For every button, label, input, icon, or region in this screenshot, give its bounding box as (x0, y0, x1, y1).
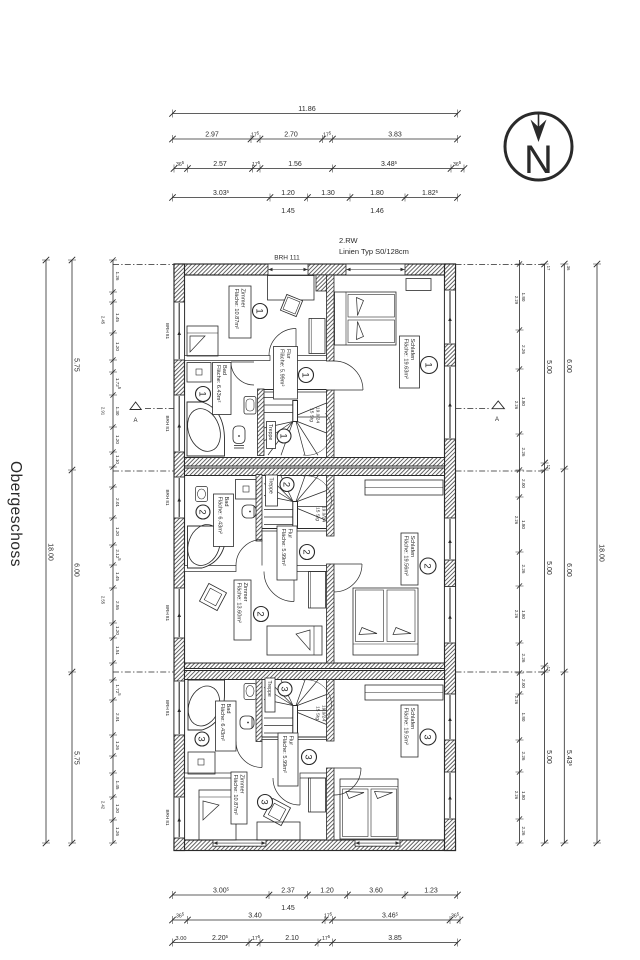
wardrobe unit1 Zimmer (309, 319, 325, 354)
svg-text:2: 2 (197, 509, 208, 514)
wardrobe unit3 Schlafen (365, 685, 443, 700)
svg-text:3: 3 (422, 734, 433, 739)
svg-text:3.00: 3.00 (176, 936, 187, 942)
svg-text:2: 2 (255, 611, 266, 616)
dimension line (45, 260, 47, 843)
chair unit3 Zimmer (263, 798, 290, 825)
svg-text:Treppe: Treppe (268, 478, 274, 494)
svg-text:2.45: 2.45 (101, 316, 106, 325)
door unit1 Schlafen (334, 361, 363, 390)
svg-text:18.00: 18.00 (47, 543, 54, 561)
unit number circle u1 zimmer (253, 304, 268, 319)
stair newel (293, 502, 298, 528)
window right 518 (445, 518, 456, 560)
svg-text:1.80: 1.80 (521, 610, 526, 619)
door unit2 Zimmer (264, 572, 294, 602)
sink unit3 (244, 684, 256, 700)
dimension line (173, 919, 461, 921)
outer wall left (174, 264, 185, 851)
svg-text:Fläche: 5.99m²: Fläche: 5.99m² (280, 529, 286, 566)
party wall 1 second leaf (185, 468, 445, 476)
svg-text:3.60: 3.60 (369, 888, 383, 895)
stair newel (293, 706, 298, 737)
svg-text:1.20: 1.20 (115, 527, 120, 536)
svg-text:BRH 81: BRH 81 (165, 605, 170, 622)
svg-text:Schlafen: Schlafen (409, 339, 415, 361)
dimension line (544, 264, 546, 843)
svg-text:1.45: 1.45 (281, 208, 295, 215)
svg-text:1.51: 1.51 (115, 646, 120, 655)
room label Bad u2 (214, 494, 234, 547)
washing machine unit3 (188, 752, 215, 774)
svg-text:1.80: 1.80 (521, 520, 526, 529)
left detail dimension column (112, 260, 114, 843)
toilet unit3 (240, 716, 254, 729)
svg-text:3.83: 3.83 (388, 132, 402, 139)
window right 694 (445, 694, 456, 740)
svg-text:6.00: 6.00 (73, 563, 80, 577)
svg-text:1.23: 1.23 (424, 888, 438, 895)
svg-text:1.30: 1.30 (321, 190, 335, 197)
unit number circle u3 treppe (278, 682, 292, 696)
svg-text:Linien Typ S0/128cm: Linien Typ S0/128cm (339, 247, 409, 256)
svg-text:19.0/24: 19.0/24 (321, 705, 327, 721)
room label Schlafen u3 (401, 705, 418, 757)
double bed unit3 Schlafen (340, 779, 398, 839)
room label Flur u2 (277, 526, 297, 580)
washing machine unit2 (236, 480, 257, 500)
window left 681 (174, 681, 185, 735)
svg-text:1.20: 1.20 (115, 626, 120, 635)
door unit1 Bad (231, 362, 254, 385)
svg-text:2.26: 2.26 (521, 827, 526, 836)
sink unit1 (244, 397, 256, 415)
svg-text:2.26: 2.26 (514, 516, 519, 525)
party wall 2 main leaf (185, 671, 445, 680)
bathtub unit1 (187, 402, 225, 456)
svg-text:1.80: 1.80 (521, 713, 526, 722)
section line A right (456, 408, 490, 410)
bed unit2 Zimmer (267, 626, 322, 655)
svg-text:19.0/24: 19.0/24 (315, 407, 321, 423)
unit number circle u2 treppe (280, 478, 294, 492)
svg-text:2.29: 2.29 (514, 296, 519, 305)
svg-text:2.10: 2.10 (285, 935, 299, 942)
svg-text:Zimmer: Zimmer (242, 583, 248, 602)
svg-text:2.55: 2.55 (101, 596, 106, 605)
svg-text:Zimmer: Zimmer (238, 775, 244, 794)
svg-text:3: 3 (303, 754, 314, 759)
svg-text:2.26: 2.26 (521, 654, 526, 663)
svg-text:17: 17 (546, 465, 551, 470)
svg-text:2.26: 2.26 (514, 610, 519, 619)
room label Flur u3 (278, 733, 298, 786)
svg-text:BRH 81: BRH 81 (165, 809, 170, 826)
svg-text:2.00: 2.00 (521, 479, 526, 488)
dimension line (596, 264, 598, 843)
svg-text:Flur: Flur (287, 736, 293, 746)
unit number circle u3 bad (195, 732, 209, 746)
room label Zimmer u1 (229, 286, 251, 338)
dimension line (174, 168, 464, 170)
svg-text:Bad: Bad (223, 497, 229, 507)
window left 797 (174, 797, 185, 838)
svg-text:5.75: 5.75 (73, 358, 80, 372)
bad wall u3 (256, 680, 262, 742)
svg-text:Flur: Flur (285, 349, 291, 359)
svg-text:Schlafen: Schlafen (409, 708, 415, 730)
svg-text:1.45: 1.45 (281, 905, 295, 912)
svg-text:2.42: 2.42 (101, 801, 106, 810)
party wall 1 main leaf (185, 458, 445, 467)
schlafen wall u2 upper (327, 476, 335, 537)
svg-text:2.26: 2.26 (514, 791, 519, 800)
svg-text:3: 3 (196, 736, 207, 741)
unit1 Zimmer/Bad partition wall (185, 356, 271, 361)
svg-text:6.00: 6.00 (565, 359, 572, 373)
svg-text:Fläche: 6.43m²: Fläche: 6.43m² (219, 704, 225, 741)
svg-text:Fläche: 19.56m²: Fläche: 19.56m² (403, 536, 409, 577)
top overall dimension 11.86 (173, 113, 458, 115)
svg-text:BRH 81: BRH 81 (165, 489, 170, 506)
svg-text:Obergeschoss: Obergeschoss (7, 461, 24, 567)
window bottom 355 (355, 840, 400, 846)
washing machine unit1 (187, 363, 211, 383)
door unit3 Schlafen (334, 768, 361, 795)
svg-text:2.97: 2.97 (205, 132, 219, 139)
door unit3 Zimmer (273, 778, 300, 805)
svg-text:2.26: 2.26 (521, 448, 526, 457)
svg-text:Schlafen: Schlafen (409, 536, 415, 558)
schlafen wall u1 upper (327, 275, 335, 361)
room label Flur u1 (274, 347, 298, 400)
svg-text:1.45: 1.45 (115, 313, 120, 322)
svg-text:1.45: 1.45 (115, 572, 120, 581)
svg-text:Treppe: Treppe (266, 681, 272, 697)
schlafen wall u3 lower (327, 768, 335, 840)
unit number circle u2 bad (196, 505, 210, 519)
schlafen wall u1 lower (327, 390, 335, 458)
svg-text:1.20: 1.20 (115, 435, 120, 444)
svg-text:1.80: 1.80 (370, 190, 384, 197)
svg-text:1: 1 (278, 433, 289, 438)
right detail dimension column (519, 260, 521, 843)
svg-text:BRH 81: BRH 81 (165, 700, 170, 717)
svg-text:Bad: Bad (221, 365, 227, 375)
bathtub unit3 (188, 680, 225, 730)
section line A left (145, 408, 174, 410)
unit number circle u3 flur (302, 750, 317, 765)
svg-text:2.55: 2.55 (115, 601, 120, 610)
svg-text:Zimmer: Zimmer (239, 289, 245, 308)
outer wall top (174, 264, 456, 275)
room label Schlafen u1 (400, 336, 420, 388)
unit number circle u1 schlafen (421, 357, 438, 374)
svg-text:2.91: 2.91 (101, 407, 106, 416)
svg-text:1.26: 1.26 (115, 272, 120, 281)
svg-text:1.56: 1.56 (288, 161, 302, 168)
chair unit2 Zimmer (199, 583, 226, 610)
door unit2 Schlafen (334, 564, 362, 592)
unit3 stair bottom edge (262, 736, 327, 738)
svg-text:1.80: 1.80 (521, 791, 526, 800)
wardrobe unit2 Zimmer (309, 572, 326, 609)
svg-text:1.26: 1.26 (115, 827, 120, 836)
svg-text:5.00: 5.00 (545, 360, 552, 374)
svg-text:BRH 81: BRH 81 (165, 415, 170, 432)
svg-text:2.26: 2.26 (521, 345, 526, 354)
unit number circle u3 schlafen (420, 729, 436, 745)
stair walk line unit1 (303, 413, 332, 455)
bed unit1 Zimmer (187, 326, 218, 356)
window top 268 (268, 264, 308, 275)
room label Bad u1 (213, 363, 232, 415)
svg-text:1.10: 1.10 (115, 455, 120, 464)
sink unit2 (196, 487, 208, 502)
svg-text:6.00: 6.00 (565, 563, 572, 577)
stairs unit at y 679.5 (264, 732, 293, 734)
chair unit1 Zimmer (280, 294, 302, 316)
svg-text:Fläche: 6.43m²: Fläche: 6.43m² (217, 497, 223, 534)
svg-text:15 Stg: 15 Stg (315, 706, 321, 720)
svg-text:1: 1 (254, 308, 265, 313)
svg-text:2.26: 2.26 (521, 752, 526, 761)
svg-text:1.20: 1.20 (281, 190, 295, 197)
schlafen wall u3 upper (327, 680, 335, 742)
door unit2 Bad (236, 540, 262, 566)
unit number circle u1 bad (196, 387, 211, 402)
svg-text:N: N (524, 138, 553, 182)
dimension line (71, 260, 73, 843)
dimension line (173, 894, 458, 896)
door unit1 Zimmer (269, 329, 296, 356)
svg-text:2.00: 2.00 (521, 679, 526, 688)
svg-text:1: 1 (197, 391, 208, 396)
room label Zimmer u3 (231, 772, 247, 824)
outer wall bottom (174, 840, 456, 851)
svg-text:1.20: 1.20 (115, 342, 120, 351)
svg-text:BRH 111: BRH 111 (274, 255, 300, 262)
unit1 stair top edge (264, 389, 327, 391)
dimension line (173, 138, 458, 140)
svg-text:1.20: 1.20 (320, 888, 334, 895)
window right 772 (445, 772, 456, 819)
svg-text:2: 2 (281, 482, 292, 487)
svg-text:1.46: 1.46 (370, 208, 384, 215)
unit number circle u2 flur (300, 545, 315, 560)
svg-text:3: 3 (259, 799, 270, 804)
window left 302 (174, 302, 185, 360)
window right 366 (445, 366, 456, 439)
unit number circle u2 schlafen (420, 558, 436, 574)
dresser unit1 Schlafen (406, 279, 431, 291)
svg-text:2: 2 (301, 549, 312, 554)
svg-text:2.70: 2.70 (284, 132, 298, 139)
room label Treppe u1 (267, 422, 276, 449)
svg-text:Fläche: 19.63m²: Fläche: 19.63m² (403, 339, 409, 380)
toilet unit1 (233, 426, 245, 444)
storey dash-dot lines left (113, 264, 174, 266)
svg-text:Treppe: Treppe (267, 424, 273, 440)
svg-text:18.00: 18.00 (598, 544, 605, 562)
north compass (505, 113, 572, 180)
svg-text:2.01: 2.01 (115, 498, 120, 507)
window top 346 (346, 264, 405, 275)
svg-text:Fläche: 19.5m²: Fläche: 19.5m² (403, 708, 409, 745)
desk unit3 Zimmer (257, 822, 300, 840)
window right 586.5 (445, 587, 456, 644)
desk unit1 Zimmer (268, 276, 315, 301)
toilet unit2 (242, 505, 256, 518)
svg-text:1.20: 1.20 (115, 804, 120, 813)
svg-text:A: A (495, 417, 499, 423)
svg-text:2.26: 2.26 (521, 565, 526, 574)
svg-text:11.86: 11.86 (298, 104, 315, 113)
svg-text:15 Stg: 15 Stg (315, 507, 321, 521)
svg-text:Fläche: 6.43m²: Fläche: 6.43m² (215, 365, 221, 402)
svg-text:15 Stg: 15 Stg (309, 408, 315, 422)
svg-text:2.26: 2.26 (514, 696, 519, 705)
svg-text:5.00: 5.00 (545, 561, 552, 575)
wardrobe unit2 Schlafen (365, 480, 443, 495)
duct stub u1 (316, 275, 334, 291)
unit3 Bad/Zimmer partition wall (185, 773, 237, 778)
svg-text:3: 3 (279, 686, 290, 691)
bed unit3 Zimmer (199, 790, 236, 840)
svg-text:5.75: 5.75 (73, 751, 80, 765)
svg-text:5.00: 5.00 (545, 750, 552, 764)
unit2 stair bottom edge (262, 528, 327, 530)
room label Treppe u2 (266, 475, 278, 506)
svg-text:1.26: 1.26 (115, 741, 120, 750)
svg-text:1: 1 (423, 362, 434, 367)
svg-text:1.80: 1.80 (521, 397, 526, 406)
dimension line (173, 942, 458, 944)
unit number circle u1 treppe (277, 429, 291, 443)
svg-text:Fläche: 10.87m²: Fläche: 10.87m² (233, 289, 239, 330)
svg-text:Fläche: 5.99m²: Fläche: 5.99m² (281, 736, 287, 773)
unit number circle u1 flur (299, 368, 314, 383)
wardrobe unit3 Zimmer (309, 778, 326, 812)
svg-text:BRH 81: BRH 81 (165, 323, 170, 340)
stairs unit at y 475.5 (264, 524, 293, 526)
svg-text:1.30: 1.30 (115, 407, 120, 416)
room label Zimmer u2 (234, 580, 251, 640)
svg-text:2.37: 2.37 (281, 888, 295, 895)
unit number circle u3 zimmer (258, 795, 273, 810)
svg-text:1: 1 (300, 372, 311, 377)
svg-text:2.91: 2.91 (115, 713, 120, 722)
stairs unit1 (264, 397, 293, 399)
door unit3 Bad (236, 742, 262, 768)
stair newel unit1 (293, 401, 298, 422)
svg-text:2: 2 (422, 563, 433, 568)
room label Schlafen u2 (401, 533, 418, 585)
stair wall u1 (258, 389, 265, 456)
svg-text:3.40: 3.40 (248, 913, 262, 920)
double bed unit2 Schlafen (353, 588, 418, 655)
unit number circle u2 zimmer (254, 607, 269, 622)
window left 477 (174, 477, 185, 518)
svg-text:2.57: 2.57 (213, 161, 227, 168)
window left 588 (174, 588, 185, 638)
svg-text:Fläche: 5.99m²: Fläche: 5.99m² (279, 349, 285, 386)
window right 290 (445, 290, 456, 344)
outer wall right (445, 264, 456, 851)
svg-text:36: 36 (566, 266, 571, 271)
svg-text:3.85: 3.85 (388, 935, 402, 942)
unit2 Bad/Zimmer partition wall (185, 566, 237, 572)
room label Treppe u3 (265, 678, 275, 712)
double bed unit1 Schlafen (335, 292, 397, 345)
svg-text:2.26: 2.26 (514, 401, 519, 410)
svg-text:17: 17 (546, 667, 551, 672)
bathtub unit2 (188, 526, 227, 568)
svg-text:Fläche: 13.60m²: Fläche: 13.60m² (236, 583, 242, 624)
dimension line (563, 264, 565, 843)
svg-text:2.RW: 2.RW (339, 236, 359, 245)
window bottom 213 (213, 840, 266, 846)
svg-text:Flur: Flur (286, 529, 292, 539)
window left 395 (174, 395, 185, 452)
svg-text:17: 17 (546, 266, 551, 271)
svg-text:1.80: 1.80 (521, 293, 526, 302)
svg-text:1.45: 1.45 (115, 781, 120, 790)
svg-text:A: A (133, 418, 137, 424)
svg-text:Fläche: 10.87m²: Fläche: 10.87m² (232, 775, 238, 816)
svg-text:19.0/24: 19.0/24 (321, 506, 327, 522)
svg-text:Bad: Bad (225, 704, 231, 714)
party wall 2 second leaf (185, 663, 445, 669)
storey dash-dot lines right (456, 264, 547, 266)
room label Bad u3 (216, 701, 237, 751)
schlafen wall u2 lower (327, 564, 335, 663)
bad wall u2 (256, 475, 262, 542)
dimension line (173, 197, 458, 199)
